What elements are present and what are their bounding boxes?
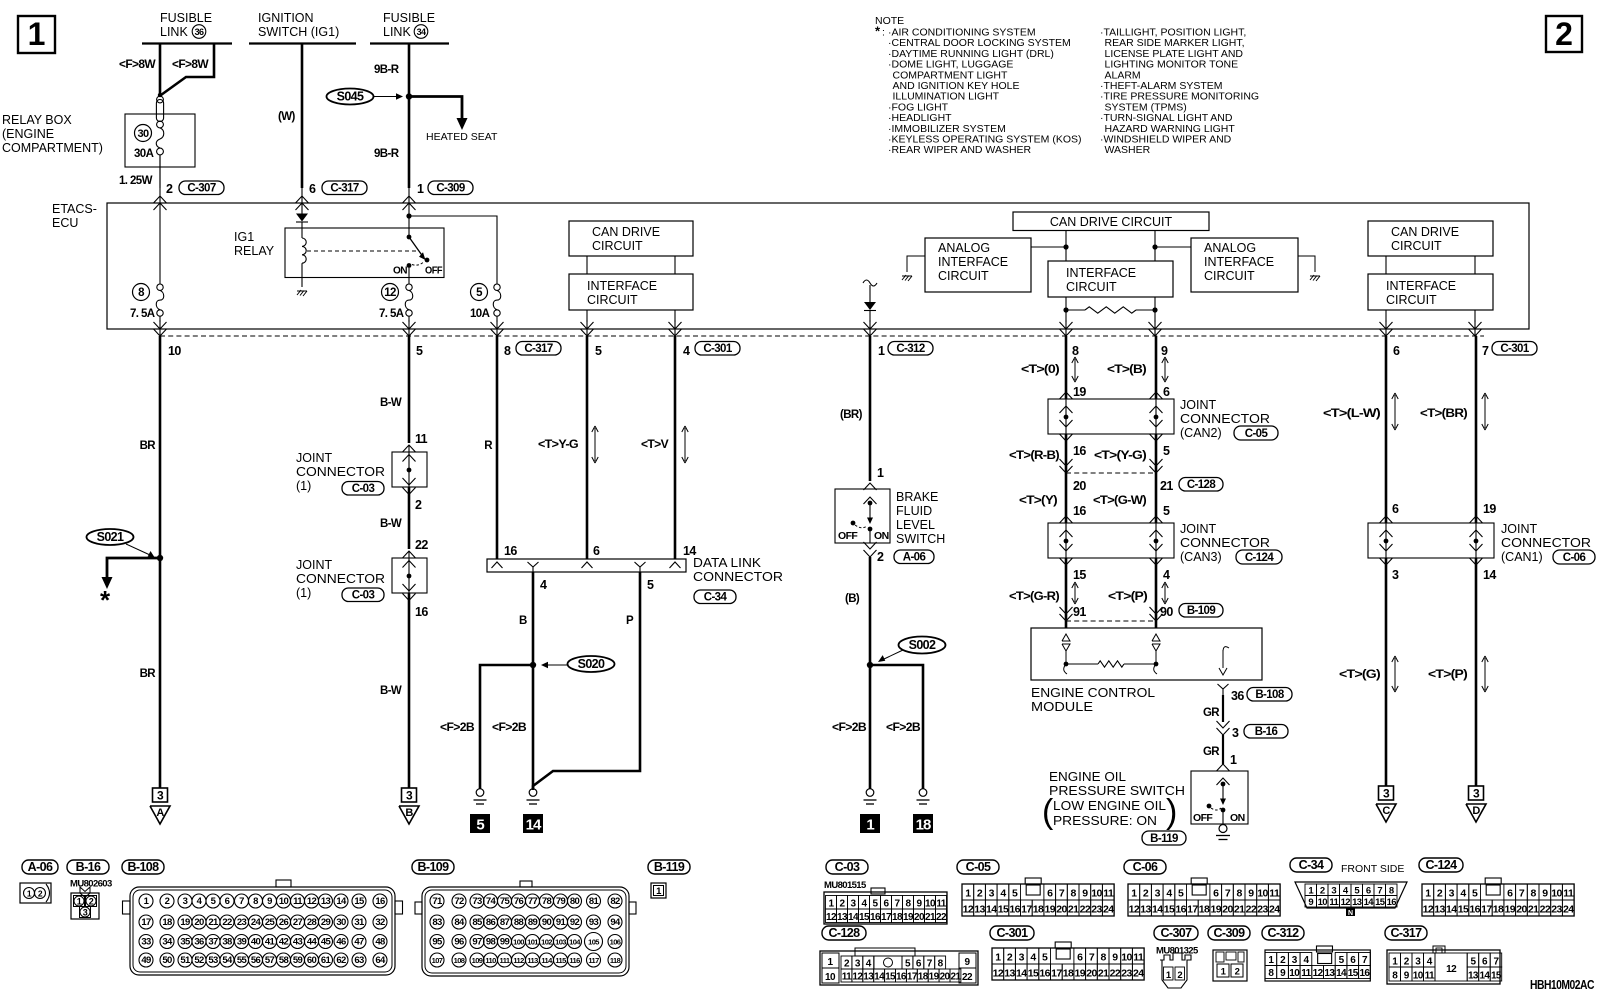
svg-text:B-W: B-W	[380, 518, 402, 530]
svg-text:B-W: B-W	[380, 685, 402, 697]
connector chevrons C-307	[154, 196, 167, 203]
svg-text:99: 99	[500, 937, 510, 948]
svg-text:FUSIBLE: FUSIBLE	[383, 11, 435, 25]
svg-text:S002: S002	[909, 638, 936, 652]
svg-text:48: 48	[375, 937, 385, 948]
svg-text:23: 23	[1121, 968, 1132, 980]
svg-text:79: 79	[556, 896, 566, 907]
svg-text:83: 83	[432, 917, 442, 928]
connector chevrons C-317	[296, 196, 309, 203]
svg-text:9: 9	[267, 896, 272, 907]
svg-text:16: 16	[1073, 444, 1086, 458]
svg-text:40: 40	[251, 937, 261, 948]
svg-text:21: 21	[1098, 968, 1109, 980]
svg-text:19: 19	[180, 917, 190, 928]
svg-text:3: 3	[1383, 787, 1390, 801]
svg-text:2: 2	[1235, 967, 1240, 978]
svg-text:90: 90	[542, 917, 552, 928]
node S045 junction	[406, 93, 412, 99]
svg-text:11: 11	[1133, 952, 1144, 964]
svg-text:CONNECTOR: CONNECTOR	[296, 465, 385, 479]
twisted arrows CAN1 bottom	[1394, 658, 1396, 690]
joint connector C-03 upper box	[392, 452, 427, 487]
svg-text:12: 12	[384, 287, 396, 299]
wire CAN drive to interface mid-left	[1065, 231, 1067, 262]
svg-text:17: 17	[141, 917, 151, 928]
wire to heated seat	[409, 97, 462, 119]
svg-text:57: 57	[265, 955, 275, 966]
svg-text:44: 44	[307, 937, 318, 948]
svg-text:ETACS-: ETACS-	[52, 202, 97, 216]
svg-text:PRESSURE SWITCH: PRESSURE SWITCH	[1049, 784, 1185, 798]
interface circuit box right	[1368, 274, 1493, 310]
svg-text:101: 101	[527, 938, 538, 947]
svg-text:21: 21	[950, 972, 961, 983]
svg-text:17: 17	[907, 972, 918, 983]
relay switch arm	[408, 216, 410, 237]
svg-text:17: 17	[881, 912, 892, 923]
svg-text:19: 19	[929, 972, 940, 983]
svg-text:WASHER: WASHER	[1105, 144, 1151, 156]
svg-text:20: 20	[1086, 968, 1097, 980]
svg-text:23: 23	[237, 917, 247, 928]
svg-text:96: 96	[454, 937, 464, 948]
svg-text:15: 15	[1491, 971, 1502, 982]
svg-text:10: 10	[1289, 968, 1300, 979]
svg-text:<F>2B: <F>2B	[832, 722, 866, 734]
CAN drive circuit box left	[569, 221, 693, 256]
wire B-W lower	[408, 593, 411, 788]
wires CAN right	[1385, 256, 1387, 274]
svg-text:*: *	[100, 585, 111, 615]
svg-text:16: 16	[504, 544, 517, 558]
power bus from fusible link 36	[142, 42, 232, 44]
svg-text:105: 105	[588, 938, 599, 947]
svg-text:1: 1	[28, 16, 46, 52]
svg-text:INTERFACE: INTERFACE	[1204, 255, 1274, 269]
CAN drive circuit box middle	[1013, 212, 1209, 231]
svg-text:3: 3	[1019, 952, 1025, 964]
svg-text:6: 6	[1047, 888, 1053, 900]
svg-text:26: 26	[279, 917, 289, 928]
svg-text:14: 14	[874, 972, 885, 983]
connector C-128 pinout	[820, 951, 978, 985]
ETACS connector dashed line	[160, 335, 1484, 337]
interface outputs with terminating resistor	[1065, 297, 1067, 322]
node S020 junction	[530, 662, 536, 668]
svg-text:23: 23	[1551, 904, 1562, 916]
svg-text:C-06: C-06	[1133, 860, 1158, 874]
svg-text:<T>(B): <T>(B)	[1107, 364, 1147, 376]
svg-text:5: 5	[1012, 888, 1018, 900]
svg-text:C: C	[1382, 805, 1390, 817]
twisted arrows above ECM	[1074, 584, 1076, 602]
ground 14	[529, 789, 537, 797]
svg-text:11: 11	[1301, 968, 1311, 979]
svg-text:2: 2	[1555, 16, 1573, 52]
svg-text:MODULE: MODULE	[1031, 700, 1093, 714]
svg-text:8: 8	[1071, 888, 1077, 900]
svg-text:9: 9	[1082, 888, 1088, 900]
svg-text:3: 3	[1331, 886, 1336, 897]
svg-text:4: 4	[1030, 952, 1036, 964]
svg-text:16: 16	[1469, 904, 1480, 916]
svg-text:A: A	[156, 807, 164, 819]
svg-text:CAN DRIVE CIRCUIT: CAN DRIVE CIRCUIT	[1050, 215, 1173, 229]
svg-text:BR: BR	[140, 668, 157, 680]
svg-text:50: 50	[162, 955, 172, 966]
wire B to ground 14	[532, 665, 535, 789]
svg-text:<T>(P): <T>(P)	[1108, 591, 1148, 603]
svg-text:OFF: OFF	[1193, 812, 1213, 824]
svg-text:106: 106	[610, 938, 621, 947]
svg-text:<T>(BR): <T>(BR)	[1420, 408, 1468, 420]
svg-text:16: 16	[1175, 904, 1186, 916]
wire CAN-H to joint connector CAN2	[1155, 336, 1158, 399]
engine oil pressure switch box	[1191, 771, 1248, 824]
connector B-16 chevrons	[1217, 721, 1230, 728]
svg-text:118: 118	[610, 956, 621, 965]
svg-text:<T>(G-W): <T>(G-W)	[1093, 495, 1147, 507]
svg-text:78: 78	[542, 896, 552, 907]
svg-text:85: 85	[472, 917, 483, 928]
svg-text:111: 111	[500, 956, 510, 965]
fuse number 30 circle	[135, 125, 152, 142]
relay contact ON	[407, 263, 412, 268]
svg-text:IGNITION: IGNITION	[258, 11, 314, 25]
svg-text:16: 16	[375, 896, 385, 907]
svg-text:88: 88	[514, 917, 524, 928]
svg-text:28: 28	[307, 917, 317, 928]
wire S002 branch to ground 18	[870, 665, 923, 789]
svg-text:27: 27	[293, 917, 303, 928]
svg-text:<T>(R-B): <T>(R-B)	[1009, 450, 1060, 462]
svg-text:20: 20	[1222, 904, 1233, 916]
wire BR from ETACS pin 10	[159, 336, 162, 788]
svg-text:1: 1	[878, 344, 885, 358]
node S002 junction	[867, 662, 873, 668]
svg-text:16: 16	[1387, 897, 1397, 908]
svg-text:14: 14	[1152, 904, 1163, 916]
svg-text:<T>(L-W): <T>(L-W)	[1323, 408, 1381, 420]
svg-text:S020: S020	[578, 657, 605, 671]
joint connector C-03 lower box	[392, 558, 427, 593]
svg-text:1: 1	[1131, 888, 1137, 900]
wire ignition switch to ETACS	[301, 44, 304, 189]
svg-text:7: 7	[1482, 344, 1489, 358]
svg-text:8: 8	[504, 344, 511, 358]
analog interface ground left	[907, 256, 925, 272]
svg-text:15: 15	[1348, 968, 1359, 979]
svg-text:COMPARTMENT): COMPARTMENT)	[2, 141, 103, 155]
svg-text:6: 6	[309, 182, 316, 196]
svg-text:FLUID: FLUID	[896, 504, 932, 518]
svg-text:72: 72	[454, 896, 464, 907]
svg-text:22: 22	[936, 912, 947, 923]
svg-text:36: 36	[195, 27, 204, 37]
svg-text:FRONT SIDE: FRONT SIDE	[1341, 863, 1404, 875]
svg-text:2: 2	[877, 550, 884, 564]
svg-text:C-34: C-34	[704, 591, 728, 603]
svg-text:3: 3	[1155, 888, 1161, 900]
connector A-06 pinout	[20, 883, 51, 903]
svg-text:15: 15	[859, 912, 870, 923]
svg-text:OFF: OFF	[425, 265, 443, 277]
svg-text:5: 5	[595, 344, 602, 358]
svg-text:13: 13	[1434, 904, 1445, 916]
svg-text:21: 21	[1234, 904, 1245, 916]
connector chevrons ETACS pin 8	[491, 322, 504, 329]
svg-text:B-108: B-108	[127, 860, 159, 874]
svg-text:CONNECTOR: CONNECTOR	[1501, 536, 1591, 550]
svg-text:RELAY: RELAY	[234, 244, 275, 258]
svg-text:22: 22	[1246, 904, 1257, 916]
svg-text:17: 17	[1187, 904, 1198, 916]
connector C-124 label	[1419, 858, 1463, 872]
svg-text:1: 1	[417, 182, 424, 196]
svg-text:11: 11	[1329, 897, 1339, 908]
svg-text:B: B	[405, 807, 413, 819]
svg-text:45: 45	[321, 937, 332, 948]
connector C-309 pinout	[1213, 950, 1247, 981]
svg-text:C-301: C-301	[1500, 343, 1530, 355]
svg-text:CIRCUIT: CIRCUIT	[1386, 293, 1437, 307]
svg-text:19: 19	[1483, 502, 1496, 516]
svg-text:94: 94	[610, 917, 621, 928]
svg-text:52: 52	[194, 955, 204, 966]
joint connector CAN3 box C-124	[1048, 523, 1174, 558]
svg-text:5: 5	[1163, 504, 1170, 518]
connector B-119 label	[648, 860, 690, 874]
svg-text:C-05: C-05	[966, 860, 991, 874]
svg-text:61: 61	[321, 955, 332, 966]
ECM internal terminals	[1062, 634, 1070, 641]
wire (B) from brake switch	[869, 557, 872, 665]
svg-text:11: 11	[936, 899, 946, 910]
svg-text:91: 91	[556, 917, 567, 928]
svg-text:HBH10M02AC: HBH10M02AC	[1530, 978, 1594, 992]
connector chevrons C-309	[403, 196, 416, 203]
svg-text:22: 22	[1110, 968, 1121, 980]
svg-text:19: 19	[903, 912, 914, 923]
svg-text:B-109: B-109	[417, 860, 449, 874]
svg-text:C-307: C-307	[1160, 926, 1192, 940]
svg-text:4: 4	[1000, 888, 1006, 900]
ground 1	[866, 789, 874, 797]
svg-text:<F>2B: <F>2B	[886, 722, 920, 734]
svg-text:C-301: C-301	[996, 926, 1028, 940]
svg-text:D: D	[1472, 805, 1480, 817]
svg-text:9: 9	[1248, 888, 1254, 900]
wire fusible link 34 down	[408, 44, 411, 189]
svg-text:30: 30	[336, 917, 346, 928]
svg-text:11: 11	[842, 972, 852, 983]
svg-text:10: 10	[168, 344, 181, 358]
svg-text:RELAY BOX: RELAY BOX	[2, 113, 72, 127]
svg-text:CIRCUIT: CIRCUIT	[1204, 269, 1255, 283]
svg-text:(: (	[1042, 793, 1054, 831]
node analog left junction	[1063, 244, 1068, 249]
svg-text:15: 15	[354, 896, 365, 907]
svg-text:97: 97	[472, 937, 482, 948]
svg-text:A-06: A-06	[28, 860, 53, 874]
svg-text:5: 5	[476, 817, 484, 834]
svg-text:20: 20	[940, 972, 951, 983]
page reference box 1	[18, 16, 55, 53]
power bus from fusible link 34	[370, 42, 449, 44]
connector C-301 pinout	[992, 948, 1144, 980]
svg-text:22: 22	[1540, 904, 1551, 916]
svg-text:30: 30	[137, 128, 149, 140]
connector C-34 pinout	[1295, 882, 1407, 908]
svg-text:(B): (B)	[845, 593, 860, 605]
svg-text:15: 15	[1375, 897, 1386, 908]
svg-text:3: 3	[989, 888, 995, 900]
svg-text:ENGINE CONTROL: ENGINE CONTROL	[1031, 686, 1155, 700]
oil pressure switch ground	[1219, 825, 1227, 833]
svg-text:<F>8W: <F>8W	[119, 59, 156, 71]
svg-text:16: 16	[870, 912, 881, 923]
svg-text:24: 24	[251, 917, 262, 928]
svg-text:8: 8	[1237, 888, 1243, 900]
wire GR lower	[1222, 735, 1224, 764]
svg-text:21: 21	[925, 912, 936, 923]
svg-text:): )	[1166, 793, 1177, 831]
svg-text:33: 33	[141, 937, 151, 948]
svg-text:8: 8	[1101, 952, 1107, 964]
joint connector CAN1 box C-06	[1368, 523, 1494, 558]
connector C-128 dashed line	[1060, 459, 1073, 466]
svg-text:16: 16	[1009, 904, 1020, 916]
svg-text:C-309: C-309	[1213, 926, 1245, 940]
svg-text:OFF: OFF	[838, 530, 858, 542]
svg-text:B-108: B-108	[1255, 689, 1285, 701]
svg-text:15: 15	[885, 972, 896, 983]
svg-text:13: 13	[1140, 904, 1151, 916]
svg-text:2: 2	[166, 182, 173, 196]
twisted pair arrow 1	[594, 428, 596, 461]
svg-text:15: 15	[1073, 568, 1086, 582]
connector C-05 label	[957, 860, 999, 874]
splice S045	[327, 89, 374, 105]
svg-text:JOINT: JOINT	[1180, 522, 1216, 536]
svg-text:(1): (1)	[296, 479, 311, 493]
svg-text:10: 10	[1413, 971, 1424, 982]
svg-text:<T>(Y-G): <T>(Y-G)	[1094, 450, 1147, 462]
svg-text:INTERFACE: INTERFACE	[1066, 266, 1136, 280]
svg-text:15: 15	[998, 904, 1009, 916]
svg-text:(CAN3): (CAN3)	[1180, 550, 1222, 564]
svg-text:116: 116	[569, 956, 580, 965]
wire CAN-L to joint connector CAN2	[1065, 336, 1068, 399]
svg-text:108: 108	[454, 956, 465, 965]
svg-text:B: B	[519, 615, 527, 627]
node relay feed junction	[406, 213, 411, 218]
svg-text:11: 11	[1425, 971, 1435, 982]
svg-text:23: 23	[1257, 904, 1268, 916]
wire GR upper	[1222, 695, 1224, 722]
connector C-317 pinout	[1387, 950, 1500, 984]
svg-text:16: 16	[1039, 968, 1050, 980]
relay coil	[302, 238, 306, 263]
svg-text:110: 110	[485, 956, 496, 965]
svg-text:ON: ON	[1230, 812, 1245, 824]
svg-text:<T>(G-R): <T>(G-R)	[1009, 591, 1060, 603]
svg-text:ANALOG: ANALOG	[1204, 241, 1256, 255]
svg-text:C-309: C-309	[436, 182, 465, 194]
engine control module box	[1031, 628, 1262, 680]
ETACS-ECU box	[107, 203, 1529, 329]
svg-text:10: 10	[1257, 888, 1268, 900]
svg-text:10: 10	[925, 899, 936, 910]
svg-text:14: 14	[1479, 971, 1490, 982]
svg-text:23: 23	[1091, 904, 1102, 916]
svg-text:C-06: C-06	[1563, 552, 1586, 564]
svg-text:55: 55	[237, 955, 248, 966]
svg-text:C-03: C-03	[835, 860, 860, 874]
svg-text:14: 14	[986, 904, 997, 916]
svg-text:113: 113	[527, 956, 538, 965]
wire CAN1 to grounds	[1385, 558, 1388, 786]
svg-text:47: 47	[354, 937, 364, 948]
svg-text:6: 6	[225, 896, 230, 907]
svg-text:115: 115	[555, 956, 566, 965]
svg-text:·REAR WIPER AND WASHER: ·REAR WIPER AND WASHER	[888, 144, 1032, 156]
connector chevrons ETACS pin 1	[864, 322, 877, 329]
wire CAN right 2 to CAN1	[1475, 336, 1478, 523]
svg-text:17: 17	[1021, 904, 1032, 916]
svg-text:8: 8	[253, 896, 258, 907]
wire fusible link 36 down	[159, 44, 162, 97]
wire ON contact to fuse 12	[408, 268, 410, 284]
connector C-34 label	[1290, 858, 1332, 872]
svg-text:PRESSURE: ON: PRESSURE: ON	[1053, 814, 1157, 828]
relay box outline	[125, 114, 195, 167]
svg-text:1: 1	[77, 897, 82, 907]
svg-text:59: 59	[293, 955, 303, 966]
svg-text:18: 18	[162, 917, 172, 928]
CAN drive circuit box right	[1368, 221, 1493, 256]
svg-text:20: 20	[194, 917, 204, 928]
svg-text:76: 76	[514, 896, 524, 907]
svg-text:A-06: A-06	[903, 551, 926, 563]
connector chevrons ETACS pin 4	[669, 322, 682, 329]
svg-text:42: 42	[279, 937, 289, 948]
ground C	[1379, 786, 1394, 800]
connector chevrons ETACS pin 10	[159, 316, 161, 322]
svg-text:(W): (W)	[278, 111, 295, 123]
svg-text:21: 21	[1528, 904, 1539, 916]
svg-text:16: 16	[896, 972, 907, 983]
connector C-307 pinout	[1160, 953, 1191, 988]
svg-text:(BR): (BR)	[840, 409, 863, 421]
svg-text:20: 20	[1056, 904, 1067, 916]
connector C-309 label	[1208, 926, 1250, 940]
svg-text:93: 93	[589, 917, 599, 928]
svg-text:46: 46	[336, 937, 346, 948]
analog interface ground right	[1298, 256, 1315, 272]
svg-text:6: 6	[1366, 886, 1371, 897]
svg-text:3: 3	[83, 908, 88, 918]
svg-text:BR: BR	[140, 440, 157, 452]
wire to ground 1	[869, 665, 872, 789]
svg-text:13: 13	[974, 904, 985, 916]
svg-text:C-317: C-317	[330, 182, 359, 194]
svg-text:GR: GR	[1203, 746, 1220, 758]
svg-text:3: 3	[1392, 568, 1399, 582]
svg-text:<F>2B: <F>2B	[440, 722, 474, 734]
svg-text:C-312: C-312	[896, 343, 925, 355]
